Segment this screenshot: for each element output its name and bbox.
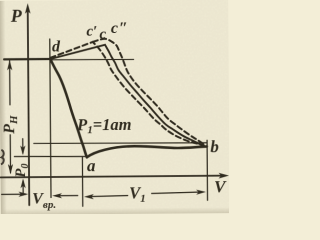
V axis [1, 176, 224, 178]
thick wavy suction line a -> b [87, 146, 207, 158]
vertical reference line below d [50, 39, 51, 197]
P_H dimension line (x=10) [9, 61, 11, 105]
atmospheric line P1 (line A) [34, 142, 207, 144]
V_vr right outside arrow [59, 195, 78, 197]
paper grain [0, 0, 230, 215]
dashed curve: d -> c' -> b [50, 41, 204, 146]
vertical reference line below a [81, 157, 83, 206]
thick expansion curve d -> a [50, 59, 87, 158]
dashed branch: c' -> c'' -> b [93, 38, 205, 146]
P axis arrowhead [25, 3, 31, 14]
paper background [0, 0, 230, 215]
V_vr left arrow [2, 193, 26, 195]
V1 left arrow [91, 195, 128, 196]
solid compression curve: d -> c -> b [50, 44, 202, 146]
top discharge line at d level [4, 58, 50, 61]
page-edge glyph fragment at left [1, 150, 4, 165]
suction pressure line P0 (line B) [14, 155, 85, 158]
P_0 dimension stubs (x=22.5), outside arrows [22, 139, 24, 153]
vertical reference line below b [206, 140, 208, 200]
thin discharge-level reference line right of d [50, 58, 133, 61]
P axis [28, 9, 30, 205]
V1 right arrow [152, 192, 199, 193]
V axis arrowhead [219, 173, 230, 179]
